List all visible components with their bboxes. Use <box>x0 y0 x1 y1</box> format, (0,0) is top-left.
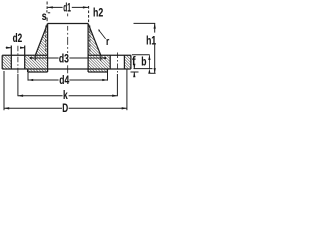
r leader arrow <box>98 29 100 31</box>
b arrow top <box>148 55 150 60</box>
svg-text:h1: h1 <box>146 33 156 47</box>
d1 arrow right <box>83 6 88 8</box>
d1 extension right (dashed) <box>88 6 90 23</box>
bore left wall <box>47 24 49 73</box>
d4 extension right <box>107 72 109 81</box>
D dimension line <box>4 107 127 109</box>
raised face left edge <box>27 69 29 72</box>
hatch hub left triangle <box>35 24 47 56</box>
hatch plate far-right band <box>124 55 130 69</box>
hatch hub right triangle <box>88 24 101 56</box>
s pointer dash <box>48 12 50 14</box>
hatch plate between bore and right hole <box>88 55 110 69</box>
bore right wall <box>87 24 89 73</box>
d1 arrow left <box>48 6 53 8</box>
thread dashed line right <box>89 26 91 55</box>
b dimension line <box>148 55 150 68</box>
label d3 <box>59 53 70 63</box>
d2 arrow right <box>20 47 25 49</box>
k arrow right <box>112 95 117 97</box>
b arrow bottom <box>148 69 150 74</box>
hatch raised face left <box>28 69 48 72</box>
b extension bottom <box>134 68 153 70</box>
d3 arrow right <box>101 57 106 59</box>
label d1 <box>63 2 72 13</box>
svg-text:k: k <box>63 88 68 102</box>
neck top line <box>48 23 89 25</box>
f arrow bottom <box>133 72 135 77</box>
svg-text:d2: d2 <box>13 31 23 45</box>
label D <box>62 103 69 113</box>
svg-text:s: s <box>42 9 47 23</box>
svg-text:D: D <box>62 101 68 115</box>
bolt hole axis right <box>116 53 118 75</box>
d3 extension right <box>100 55 102 60</box>
f arrow top <box>133 64 135 69</box>
hatch plate far-left band <box>2 55 11 69</box>
d2 dimension tail right <box>20 47 25 49</box>
d1 extension left (dashed) <box>46 2 48 5</box>
d4 dimension line <box>28 79 108 81</box>
h1 extension top <box>134 22 156 24</box>
d4 arrow right <box>102 79 107 81</box>
f dimension line upper <box>133 66 135 69</box>
bolt hole right edge lines <box>109 55 111 69</box>
svg-text:b: b <box>141 55 146 69</box>
D arrow left <box>4 107 9 109</box>
svg-text:d1: d1 <box>63 0 71 14</box>
d2 arrow left <box>6 47 11 49</box>
hatch plate between left hole and bore <box>25 55 48 69</box>
d3 dimension line <box>30 57 107 59</box>
d2 dimension tail left <box>6 47 12 49</box>
label h1 <box>146 33 158 45</box>
raised face right edge <box>106 69 108 72</box>
f dimension tail lower <box>133 72 135 76</box>
k extension left <box>17 74 19 96</box>
svg-text:d3: d3 <box>59 51 69 65</box>
label d4 <box>59 75 70 85</box>
b extension top <box>132 54 150 56</box>
flange left edge <box>1 55 3 69</box>
hatch raised face right <box>88 69 107 72</box>
d3 arrow left <box>30 57 35 59</box>
flange top line left segment <box>2 54 47 56</box>
bolt hole left edge lines <box>10 46 12 70</box>
k dimension line <box>18 95 118 97</box>
d4 extension left <box>27 72 29 81</box>
d4 arrow left <box>28 79 33 81</box>
r leader line <box>99 30 106 39</box>
d3 extension left <box>34 55 36 60</box>
svg-text:h2: h2 <box>93 5 103 19</box>
f extension bottom <box>131 71 139 73</box>
hub left flank <box>35 24 47 56</box>
label s <box>41 12 46 21</box>
h1 dimension line <box>154 23 156 73</box>
h1 arrow bottom <box>154 68 156 73</box>
raised face bottom right segment <box>88 71 107 73</box>
label k <box>63 90 69 99</box>
raised face bottom left segment <box>28 71 48 73</box>
D extension left <box>3 71 5 110</box>
hub right flank <box>88 24 101 56</box>
svg-text:d4: d4 <box>59 73 69 87</box>
h1 foot tick <box>150 72 155 74</box>
k extension right <box>116 74 118 96</box>
centerline main axis <box>67 14 69 78</box>
flange right edge <box>130 55 132 69</box>
flange top line right segment <box>88 54 131 56</box>
D arrow right <box>122 107 127 109</box>
d1 dimension line <box>48 6 89 8</box>
D extension right <box>126 69 128 110</box>
flange bottom line <box>2 68 131 70</box>
svg-text:r: r <box>106 36 110 48</box>
h1 arrow top <box>154 23 156 28</box>
k arrow left <box>18 95 23 97</box>
bolt hole axis left <box>17 46 19 74</box>
thread dashed line left <box>45 26 47 55</box>
